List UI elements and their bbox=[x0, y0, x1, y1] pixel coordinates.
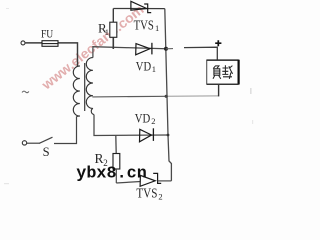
junction dot VD2 bbox=[167, 134, 170, 137]
TVS2 diode bbox=[140, 175, 155, 186]
watermark ybx8.cn bbox=[0, 0, 262, 205]
负载 load text bbox=[213, 65, 233, 79]
right rail wire bbox=[165, 9, 172, 181]
terminal: top input circle bbox=[21, 41, 25, 45]
diode VD2 bbox=[140, 129, 152, 142]
~ AC symbol bbox=[22, 91, 29, 93]
transformer T primary winding bbox=[73, 66, 80, 116]
switch S lever bbox=[39, 137, 53, 143]
wire: TVS2 cathode to rail bbox=[158, 180, 172, 182]
top rail wire bbox=[113, 8, 165, 10]
transformer core bbox=[84, 63, 86, 111]
+ polarity mark bbox=[215, 40, 221, 46]
transformer secondary winding bbox=[86, 58, 94, 115]
wire: AC top input to fuse and transformer primary top bbox=[26, 43, 78, 66]
noise specks bbox=[4, 8, 253, 184]
terminal: bottom input circle bbox=[22, 141, 26, 145]
fuse FU bbox=[42, 41, 58, 47]
resistor R2 bbox=[115, 135, 117, 153]
wire: center tap to load bottom bbox=[92, 95, 166, 98]
load box bbox=[207, 60, 239, 84]
resistor R1 bbox=[112, 9, 114, 23]
wire: secondary bottom to VD2 bbox=[94, 115, 168, 136]
diode VD1 bbox=[136, 44, 150, 55]
wire: secondary top to VD1 anode rail bbox=[93, 47, 166, 58]
wire: rail to load top (faded scan, broken) bbox=[166, 48, 173, 50]
junction dot center tap cross bbox=[165, 95, 168, 98]
svg-text:ybx8.cn: ybx8.cn bbox=[76, 164, 147, 183]
wire: bottom terminal to switch bbox=[27, 142, 40, 144]
wire: R2 bottom to TVS2 bbox=[116, 182, 140, 184]
junction dot VD1/load bbox=[164, 47, 168, 51]
TVS1 diode bbox=[131, 1, 147, 10]
wire: switch to transformer primary bottom bbox=[54, 117, 77, 144]
